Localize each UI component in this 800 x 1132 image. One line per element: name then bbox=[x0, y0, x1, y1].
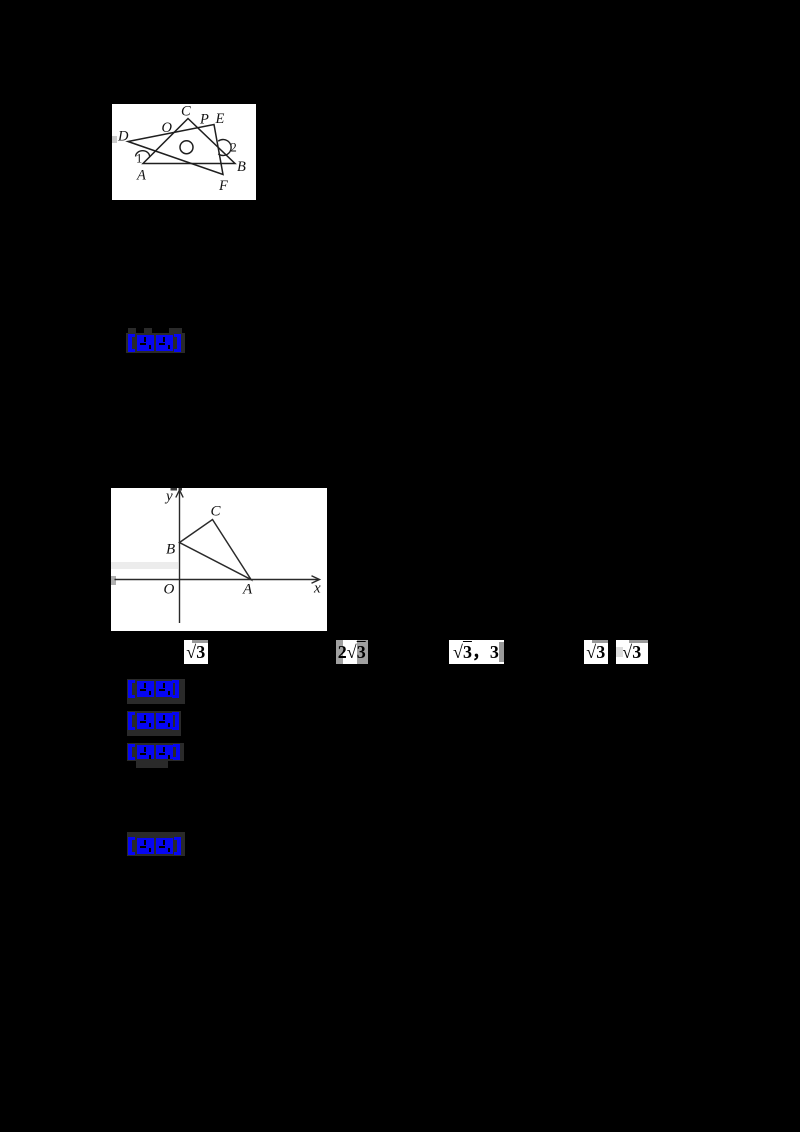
wire triangle ABC bbox=[143, 119, 235, 164]
label 4 blue bbox=[128, 744, 180, 760]
gray nub left bbox=[111, 576, 116, 585]
label 5 gray highlight bbox=[127, 832, 185, 856]
svg-text:A: A bbox=[242, 582, 253, 598]
label 1 gray highlight bbox=[126, 333, 185, 353]
wire triangle DEF bbox=[128, 125, 223, 175]
triangle ABC bbox=[180, 520, 252, 580]
figure 1: two overlapping triangles ABC and DEF bbox=[112, 104, 256, 200]
figure 2: coordinate plane with triangle ABC bbox=[111, 488, 327, 631]
formula box 5: sqrt(3) bbox=[616, 640, 648, 664]
svg-text:2: 2 bbox=[231, 141, 237, 155]
svg-text:F: F bbox=[218, 178, 228, 194]
angle arc 1 bbox=[136, 151, 150, 157]
svg-text:B: B bbox=[166, 542, 175, 558]
formula box 4: sqrt(3) bbox=[584, 640, 609, 664]
svg-text:B: B bbox=[237, 159, 246, 175]
label 4 gray highlight bbox=[127, 743, 184, 761]
svg-text:D: D bbox=[117, 129, 129, 145]
label 2 gray highlight bbox=[127, 679, 185, 704]
gray nub on figure 1 left edge bbox=[112, 136, 117, 143]
dark nubs top bbox=[171, 488, 178, 491]
svg-text:O: O bbox=[162, 120, 173, 136]
label 3 blue bbox=[128, 712, 179, 730]
svg-text:E: E bbox=[215, 111, 225, 127]
svg-text:1: 1 bbox=[136, 152, 142, 166]
formula box 2: 2*sqrt(3) bbox=[336, 640, 369, 664]
formula box 3: (sqrt(3), 3) bbox=[449, 640, 504, 664]
svg-text:P: P bbox=[199, 112, 209, 128]
faint gray streak bbox=[111, 562, 178, 569]
y axis bbox=[179, 491, 181, 623]
node circle O bbox=[180, 141, 193, 154]
svg-text:C: C bbox=[211, 504, 222, 520]
svg-text:O: O bbox=[164, 582, 175, 598]
label 2 blue bbox=[128, 680, 179, 698]
angle arc 2 bbox=[218, 140, 231, 156]
label 5 blue bbox=[128, 837, 181, 855]
x axis bbox=[115, 579, 320, 581]
formula box 1: sqrt(3) bbox=[184, 640, 209, 664]
svg-text:y: y bbox=[164, 489, 173, 505]
svg-text:x: x bbox=[313, 581, 321, 597]
svg-text:C: C bbox=[181, 104, 191, 120]
label 3 gray highlight bbox=[127, 711, 181, 736]
label 1 blue bbox=[128, 334, 181, 352]
svg-text:A: A bbox=[136, 168, 146, 184]
